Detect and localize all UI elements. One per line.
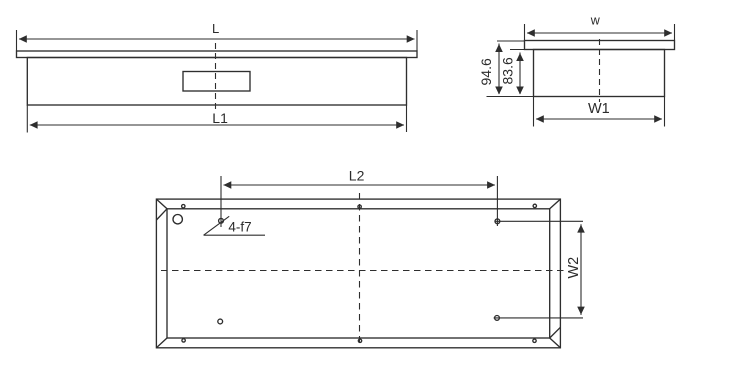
plan view: inner outline (167, 209, 550, 338)
plan view: border hole top-right (533, 204, 536, 207)
dim 83.6: extension line (510, 49, 534, 51)
dim L1: right arrowhead (396, 121, 404, 128)
dim W1: right extension line (664, 97, 666, 127)
dim W2: down arrowhead (577, 307, 585, 315)
dim W2: top extension line (495, 220, 584, 222)
plan view: mounting hole bottom-left (218, 319, 223, 324)
dim W1: left arrowhead (536, 115, 544, 122)
plan view: border hole bottom-right (533, 339, 536, 342)
dim w: right extension line (674, 24, 676, 41)
svg-text:83.6: 83.6 (500, 57, 516, 84)
dim L: left extension line (16, 30, 18, 51)
side view: centerline (215, 43, 217, 113)
dim L1: left arrowhead (30, 121, 38, 128)
plan view: border hole bottom-middle (358, 339, 361, 342)
section view: centerline (599, 39, 601, 102)
svg-text:L: L (212, 21, 219, 36)
dim L2: left extension line (220, 176, 222, 227)
plan view: top-right corner mitre (550, 199, 561, 209)
dim L2: left arrowhead (223, 181, 231, 188)
dim 94.6: dimension line (498, 44, 500, 95)
dim L2: right extension line (496, 176, 498, 226)
dim w: left extension line (524, 24, 526, 41)
dim L: right arrowhead (407, 35, 415, 42)
dim 83.6: up arrowhead (516, 53, 524, 61)
dim 94.6: bottom extension line (487, 96, 534, 98)
dim L1: right extension line (406, 105, 408, 132)
dim w: dimension line (527, 32, 672, 34)
dim L: dimension line (19, 38, 415, 40)
dim L2: dimension line (224, 184, 495, 186)
svg-text:L1: L1 (212, 110, 228, 126)
section view: flange outline (525, 41, 675, 50)
dim W1: left extension line (533, 97, 535, 127)
plan view: bottom-right corner mitre (550, 327, 561, 348)
dim 83.6: dimension line (519, 53, 521, 95)
leader 4-f7: slanted line (204, 216, 230, 235)
side view: body outline (27, 58, 406, 106)
section view: body outline (534, 50, 665, 97)
side view: flange outline (17, 51, 418, 58)
dim W1: right arrowhead (654, 115, 662, 122)
dim L2: right arrowhead (487, 181, 495, 188)
dim w: left arrowhead (527, 29, 535, 36)
dim L1: left extension line (26, 105, 28, 133)
svg-text:W2: W2 (566, 257, 582, 279)
dim 94.6: up arrowhead (495, 44, 503, 52)
plan view: horizontal centerline (161, 270, 564, 272)
plan view: mounting hole top-left (219, 218, 224, 223)
plan view: border hole bottom-left (182, 339, 185, 342)
dim L: right extension line (416, 30, 418, 51)
dim 94.6: down arrowhead (495, 87, 503, 95)
plan view: vertical centerline (359, 193, 361, 345)
dim W2: dimension line (580, 224, 582, 315)
dim w: right arrowhead (664, 29, 672, 36)
dim W2: up arrowhead (577, 225, 585, 233)
plan view: large hole top-left (173, 215, 182, 224)
dim W2: bottom extension line (494, 317, 583, 319)
svg-text:L2: L2 (349, 168, 365, 184)
dim 83.6: down arrowhead (516, 87, 524, 95)
dim W1: dimension line (536, 118, 662, 120)
svg-text:W1: W1 (588, 101, 610, 117)
plan view: mounting hole top-right (495, 219, 500, 224)
svg-text:4-f7: 4-f7 (228, 220, 251, 235)
plan view: bottom-left corner mitre (156, 338, 167, 348)
plan view: mounting hole bottom-right (495, 316, 500, 321)
plan view: border hole top-middle (358, 205, 361, 208)
dim L: left arrowhead (19, 35, 27, 42)
svg-text:94.6: 94.6 (478, 58, 494, 85)
dim L1: dimension line (30, 124, 404, 126)
dim 94.6: top extension line (497, 40, 525, 42)
svg-text:w: w (590, 14, 601, 28)
plan view: top-left corner mitre (156, 199, 167, 220)
plan view: border hole top-left (182, 205, 185, 208)
leader 4-f7: underline (204, 234, 265, 236)
side view: label box (183, 72, 250, 92)
plan view: outer outline (156, 199, 560, 348)
